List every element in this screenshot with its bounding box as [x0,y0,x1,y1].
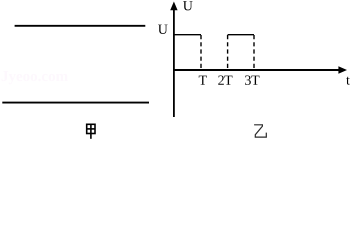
svg-text:U: U [183,0,193,14]
svg-text:U: U [158,23,168,38]
svg-text:3T: 3T [244,74,260,89]
svg-text:t: t [346,74,350,89]
svg-text:Jyeoo.com: Jyeoo.com [1,69,69,85]
svg-text:2T: 2T [218,74,233,89]
svg-text:T: T [198,74,207,89]
